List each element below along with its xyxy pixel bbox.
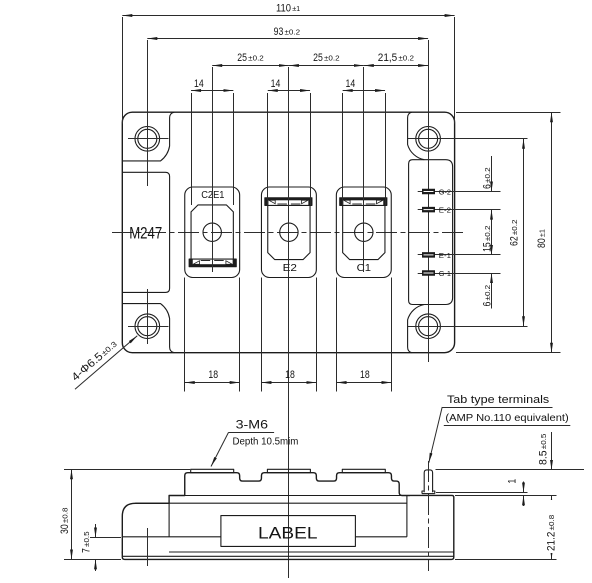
callout 3-M6 bbox=[211, 418, 298, 466]
TOPVIEW bbox=[112, 40, 501, 362]
svg-text:30±0.8: 30±0.8 bbox=[59, 508, 71, 535]
svg-text:4-Φ6.5±0.3: 4-Φ6.5±0.3 bbox=[70, 338, 120, 383]
center line left hole (side) bbox=[147, 528, 149, 566]
terminal center line E2 section bbox=[288, 67, 290, 578]
dimension 93 bbox=[147, 38, 428, 40]
terminal C1 bbox=[336, 187, 391, 278]
dimension 18 third bbox=[337, 278, 392, 392]
extension line baseplate bottom left bbox=[64, 559, 121, 561]
svg-text:93±0.2: 93±0.2 bbox=[274, 26, 301, 38]
case silhouette (side view) bbox=[122, 473, 454, 553]
center line tab (side) bbox=[428, 461, 430, 571]
control terminal recess bbox=[409, 160, 453, 305]
case step edge right bbox=[406, 496, 408, 537]
svg-text:C1: C1 bbox=[357, 263, 372, 274]
mounting hole bottom-right bbox=[416, 314, 441, 339]
svg-text:(AMP No.110 equivalent): (AMP No.110 equivalent) bbox=[445, 413, 568, 424]
case edge bottom-left boss contour bbox=[122, 304, 174, 353]
extension line body left bbox=[122, 17, 124, 124]
dimension 18 second bbox=[261, 278, 316, 392]
extension lines 62 dim bbox=[408, 138, 528, 140]
svg-text:18: 18 bbox=[285, 369, 295, 381]
dimension 110 bbox=[122, 15, 454, 17]
svg-text:6±0.2: 6±0.2 bbox=[482, 285, 494, 307]
dimension 25 right bbox=[289, 65, 364, 67]
svg-text:6±0.2: 6±0.2 bbox=[482, 167, 494, 189]
extension line cap top bbox=[64, 469, 190, 471]
dimension 62 bbox=[523, 139, 525, 326]
svg-text:E-1: E-1 bbox=[439, 251, 451, 260]
dimension 21.2 bbox=[545, 497, 558, 560]
svg-text:E2: E2 bbox=[283, 263, 297, 274]
svg-text:1: 1 bbox=[507, 479, 519, 484]
svg-text:62±0.2: 62±0.2 bbox=[508, 220, 520, 247]
svg-text:G-2: G-2 bbox=[439, 187, 451, 196]
module body outline (top view) bbox=[122, 112, 454, 353]
SIDEVIEW bbox=[122, 461, 454, 571]
svg-text:LABEL: LABEL bbox=[258, 523, 318, 542]
extension line baseplate bottom right bbox=[455, 559, 557, 561]
baseplate joint line bbox=[122, 555, 454, 557]
leader 4-phi6.5 bbox=[75, 336, 137, 390]
extension line tab seat bbox=[455, 495, 557, 497]
dimension 18 first bbox=[185, 278, 240, 392]
mounting hole top-left bbox=[128, 127, 169, 152]
svg-text:25±0.2: 25±0.2 bbox=[313, 52, 340, 64]
flange top line bbox=[135, 502, 407, 504]
svg-text:21.2±0.8: 21.2±0.8 bbox=[546, 515, 558, 551]
svg-text:18: 18 bbox=[360, 369, 370, 381]
tab terminal E-1 bbox=[418, 252, 501, 258]
svg-text:110±1: 110±1 bbox=[276, 3, 300, 15]
svg-text:7±0.5: 7±0.5 bbox=[81, 531, 93, 553]
case skirt line right bbox=[355, 536, 407, 538]
svg-text:14: 14 bbox=[271, 78, 281, 90]
mounting hole bottom-left bbox=[128, 314, 169, 339]
case step edge left bbox=[168, 503, 170, 537]
case edge left wall bbox=[122, 172, 169, 292]
dimension 14 first bbox=[191, 78, 233, 205]
tab terminal pin (side view) bbox=[422, 470, 435, 494]
case edge top-right boss contour bbox=[408, 112, 425, 160]
svg-text:Tab type terminals: Tab type terminals bbox=[447, 394, 550, 406]
tab terminal G-2 bbox=[418, 189, 501, 195]
svg-text:G-1: G-1 bbox=[439, 269, 451, 278]
svg-text:8.5±0.5: 8.5±0.5 bbox=[537, 434, 549, 465]
baseplate top line bbox=[169, 551, 454, 553]
baseplate (side view) bbox=[122, 552, 454, 559]
terminal cap 2 bbox=[267, 469, 310, 472]
terminal C2E1 bbox=[185, 187, 240, 278]
case edge top-left boss contour bbox=[122, 112, 174, 161]
dimension 6 top bbox=[491, 156, 493, 192]
dimension 15 bbox=[491, 210, 493, 255]
vertical center line left bottom hole bbox=[147, 289, 149, 344]
dimension 1 bbox=[507, 479, 524, 506]
terminal cap 1 bbox=[191, 469, 234, 472]
case skirt line left bbox=[122, 536, 221, 538]
dimension 80 bbox=[551, 112, 553, 353]
SIDEDIMS bbox=[59, 394, 584, 571]
callout tab type terminals bbox=[429, 394, 571, 463]
terminal center line C1 bbox=[363, 67, 365, 272]
dimension 21,5 bbox=[364, 65, 428, 67]
tab terminal G-1 bbox=[418, 270, 501, 276]
extension line tab top bbox=[436, 469, 585, 471]
dimension 25 left bbox=[212, 65, 289, 67]
svg-text:25±0.2: 25±0.2 bbox=[237, 52, 263, 64]
terminal E2 bbox=[261, 187, 316, 278]
dimension 30 bbox=[71, 469, 73, 559]
svg-text:14: 14 bbox=[346, 78, 356, 90]
LABEL box bbox=[221, 516, 356, 547]
extension line case skirt bbox=[90, 537, 121, 539]
svg-text:14: 14 bbox=[194, 78, 204, 90]
dimension 8.5 bbox=[537, 432, 551, 505]
vertical center line right holes and tabs bbox=[428, 40, 430, 362]
svg-text:80±1: 80±1 bbox=[536, 229, 548, 248]
extension line tab ledge bbox=[436, 492, 528, 494]
svg-text:21,5±0.2: 21,5±0.2 bbox=[378, 52, 414, 64]
svg-text:E-2: E-2 bbox=[439, 206, 451, 215]
horizontal center line bbox=[112, 232, 466, 234]
extension line body right bbox=[454, 17, 456, 124]
mounting hole top-right bbox=[416, 127, 441, 152]
case edge bottom-right boss contour bbox=[408, 305, 425, 353]
dimension 6 bottom bbox=[491, 273, 493, 309]
svg-text:M247: M247 bbox=[129, 224, 162, 243]
terminal cap 3 bbox=[342, 469, 385, 472]
terminal center line C2E1 bbox=[212, 67, 214, 272]
tab terminal E-2 bbox=[418, 207, 501, 213]
dimension 7 bbox=[81, 524, 96, 571]
svg-text:C2E1: C2E1 bbox=[201, 190, 225, 201]
svg-text:Depth 10.5mim: Depth 10.5mim bbox=[233, 437, 299, 448]
dimension 14 second bbox=[268, 78, 311, 205]
raised section top line bbox=[169, 495, 452, 497]
vertical center line left top hole bbox=[147, 40, 149, 186]
extension lines 80 dim bbox=[456, 112, 561, 114]
dimension 14 third bbox=[343, 78, 386, 205]
svg-text:18: 18 bbox=[208, 369, 218, 381]
svg-text:15±0.2: 15±0.2 bbox=[482, 226, 494, 253]
svg-text:3-M6: 3-M6 bbox=[236, 418, 268, 431]
